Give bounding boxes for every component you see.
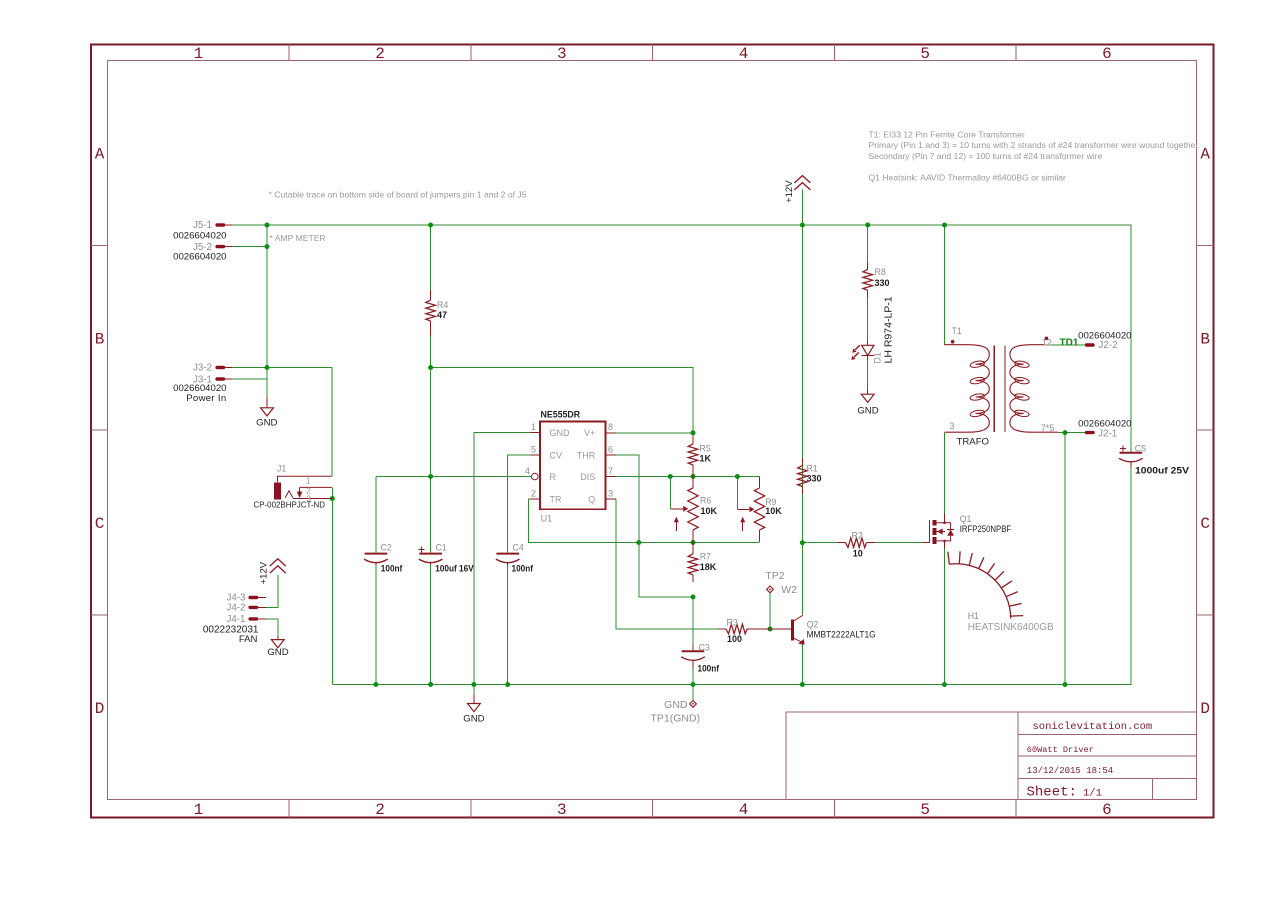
svg-text:B: B [95,330,105,348]
svg-text:100nf: 100nf [698,664,720,674]
svg-text:2: 2 [375,45,385,63]
svg-text:3: 3 [557,45,567,63]
svg-text:* Cutable trace on bottom side: * Cutable trace on bottom side of board … [269,189,527,199]
svg-text:GND: GND [267,647,288,658]
svg-text:D: D [1200,700,1210,718]
svg-text:1: 1 [194,45,204,63]
svg-text:J5-1: J5-1 [193,220,212,231]
svg-text:R2: R2 [852,530,863,540]
svg-text:C3: C3 [699,643,710,653]
svg-text:13/12/2015 18:54: 13/12/2015 18:54 [1027,766,1113,776]
svg-text:TD1: TD1 [1060,337,1079,348]
svg-text:GND: GND [550,428,571,438]
svg-text:Q1 Heatsink: AAVID Thermalloy: Q1 Heatsink: AAVID Thermalloy #6400BG or… [869,172,1067,182]
svg-text:5: 5 [920,45,930,63]
svg-text:U1: U1 [541,514,552,524]
svg-text:Q2: Q2 [807,620,819,630]
svg-text:C: C [1200,515,1210,533]
svg-text:D1: D1 [873,352,883,363]
svg-text:W2: W2 [781,584,797,596]
svg-text:J2-2: J2-2 [1099,340,1118,351]
svg-text:+12V: +12V [784,180,795,203]
svg-text:R6: R6 [700,495,711,505]
svg-text:5: 5 [531,445,536,455]
svg-text:* AMP METER: * AMP METER [270,233,326,243]
svg-text:4: 4 [739,45,749,63]
svg-text:3: 3 [557,801,567,819]
svg-text:330: 330 [807,474,822,484]
svg-text:6: 6 [608,445,613,455]
svg-text:10K: 10K [701,506,718,516]
svg-text:C2: C2 [381,543,392,553]
svg-text:GND: GND [664,699,688,711]
svg-text:4: 4 [739,801,749,819]
svg-text:60Watt Driver: 60Watt Driver [1027,745,1094,755]
svg-text:TP1(GND): TP1(GND) [651,712,701,724]
svg-text:J4-2: J4-2 [226,603,245,614]
svg-text:IRFP250NPBF: IRFP250NPBF [960,524,1012,535]
svg-text:CV: CV [550,451,563,461]
svg-text:C5: C5 [1135,444,1146,454]
svg-text:H1: H1 [968,611,979,621]
svg-text:LH R974-LP-1: LH R974-LP-1 [883,296,895,363]
svg-text:D: D [95,700,105,718]
svg-text:100nf: 100nf [512,564,534,574]
svg-text:GND: GND [256,418,277,429]
svg-text:R8: R8 [875,267,886,277]
svg-text:18K: 18K [700,562,717,572]
svg-text:1: 1 [306,477,310,486]
svg-text:R7: R7 [700,552,711,562]
svg-text:0026604020: 0026604020 [173,231,226,242]
svg-text:FAN: FAN [239,634,258,645]
svg-text:R5: R5 [700,444,711,454]
svg-text:7*5: 7*5 [1041,423,1054,433]
svg-text:TRAFO: TRAFO [957,437,990,448]
svg-text:Sheet:: Sheet: [1027,785,1077,801]
svg-text:6: 6 [1102,801,1112,819]
svg-text:3: 3 [950,421,955,431]
svg-text:1: 1 [194,801,204,819]
svg-text:47: 47 [437,310,447,320]
svg-text:J2-1: J2-1 [1098,428,1117,439]
svg-text:12: 12 [1042,338,1052,348]
svg-text:C: C [95,515,105,533]
svg-text:3: 3 [307,495,311,504]
svg-text:4: 4 [525,466,530,476]
svg-text:A: A [1200,146,1210,164]
svg-text:1K: 1K [700,454,712,464]
svg-text:5: 5 [920,801,930,819]
svg-text:C4: C4 [513,543,524,553]
svg-text:GND: GND [857,406,878,417]
svg-text:HEATSINK6400GB: HEATSINK6400GB [968,622,1054,633]
svg-text:Q: Q [588,494,595,504]
svg-text:330: 330 [875,278,890,288]
svg-text:2: 2 [375,801,385,819]
svg-text:TR: TR [550,494,562,504]
svg-text:GND: GND [463,714,484,725]
svg-text:C1: C1 [436,543,447,553]
svg-text:R: R [550,472,557,482]
svg-text:1000uf 25V: 1000uf 25V [1135,466,1189,476]
svg-text:soniclevitation.com: soniclevitation.com [1033,721,1153,733]
svg-text:J3-2: J3-2 [193,363,212,374]
svg-text:10K: 10K [765,506,782,516]
svg-text:100: 100 [727,634,742,644]
svg-text:+12V: +12V [259,561,270,584]
svg-text:A: A [95,146,105,164]
svg-text:1: 1 [531,422,536,432]
svg-text:Secondary (Pin 7 and 12) = 100: Secondary (Pin 7 and 12) = 100 turns of … [869,151,1103,161]
svg-text:Power In: Power In [186,393,226,404]
svg-text:Primary (Pin 1 and 3) = 10 tur: Primary (Pin 1 and 3) = 10 turns with 2 … [869,140,1201,150]
svg-text:10: 10 [853,549,863,559]
svg-text:3: 3 [608,489,613,499]
svg-text:1/1: 1/1 [1083,788,1102,800]
svg-text:T1: EI33 12 Pin Ferrite Core T: T1: EI33 12 Pin Ferrite Core Transformer [869,130,1025,140]
svg-text:R3: R3 [727,617,738,627]
svg-text:6: 6 [1102,45,1112,63]
svg-text:NE555DR: NE555DR [541,409,581,419]
svg-text:7: 7 [608,466,613,476]
svg-text:TP2: TP2 [765,570,784,582]
svg-text:0026604020: 0026604020 [173,252,226,263]
svg-text:R1: R1 [807,464,818,474]
svg-text:THR: THR [577,451,596,461]
svg-text:V+: V+ [584,428,595,438]
svg-text:Q1: Q1 [960,514,972,524]
svg-text:J4-1: J4-1 [226,614,245,625]
svg-text:B: B [1200,330,1210,348]
svg-text:J1: J1 [277,464,286,474]
svg-text:MMBT2222ALT1G: MMBT2222ALT1G [807,630,876,641]
svg-text:100uf 16V: 100uf 16V [435,564,474,574]
svg-text:DIS: DIS [580,472,595,482]
svg-text:T1: T1 [952,326,962,336]
svg-text:R4: R4 [437,300,448,310]
svg-text:8: 8 [608,422,613,432]
svg-text:100nf: 100nf [381,564,403,574]
svg-text:CP-002BHPJCT-ND: CP-002BHPJCT-ND [254,500,326,510]
svg-text:2: 2 [531,489,536,499]
